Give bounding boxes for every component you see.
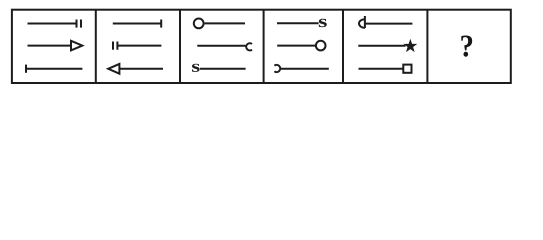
cell1 row2 open arrowhead right xyxy=(71,41,82,51)
cell4 row2 open circle right xyxy=(316,41,326,51)
cell1 row1 line xyxy=(28,23,77,25)
cell5 row2 line xyxy=(358,45,405,47)
cell1 row1 tick bar 2 xyxy=(80,20,82,28)
cell1 row3 line xyxy=(26,68,82,70)
divider 5 xyxy=(426,10,428,83)
cell5 row3 line xyxy=(359,68,403,70)
divider 3 xyxy=(263,10,265,83)
cell3 row1 line xyxy=(205,22,245,24)
cell6 question mark xyxy=(461,36,472,57)
divider 1 xyxy=(95,10,97,83)
cell4 row1 line xyxy=(277,22,319,24)
divider 2 xyxy=(179,10,181,83)
cell2 row3 line xyxy=(119,68,163,70)
cell5 row1 flag bar xyxy=(364,16,366,28)
cell3 row3 letter s xyxy=(192,64,200,72)
cell5 row1 line xyxy=(366,23,413,25)
cell2 row3 open arrowhead left xyxy=(108,64,119,74)
cell2 row2 tick bar 1 xyxy=(112,42,114,50)
cell2 row1 line xyxy=(113,23,161,25)
cell5 row3 open square xyxy=(403,65,411,73)
cell4 row3 c-hook open right xyxy=(274,65,280,72)
cell2 row2 tick bar 2 xyxy=(116,42,118,50)
cell4 row1 letter s xyxy=(319,19,327,27)
cell3 row2 line xyxy=(197,45,245,47)
cell2 row2 line xyxy=(117,45,161,47)
cell4 row2 line xyxy=(277,45,315,47)
cell2 row1 tick bar right xyxy=(160,20,162,28)
cell1 row1 tick bar 1 xyxy=(76,20,78,28)
cell3 row2 c-hook open left xyxy=(246,43,252,50)
cell1 row3 tick bar left xyxy=(25,65,27,73)
cell5 row2 filled star xyxy=(405,41,415,51)
cell4 row3 line xyxy=(280,68,329,70)
divider 4 xyxy=(342,10,344,83)
cell1 row2 line xyxy=(28,45,71,47)
cell5 row1 flag half-disc xyxy=(359,19,365,28)
cell3 row1 open circle left xyxy=(194,19,204,29)
table outer border xyxy=(12,10,511,83)
cell3 row3 line xyxy=(200,68,246,70)
